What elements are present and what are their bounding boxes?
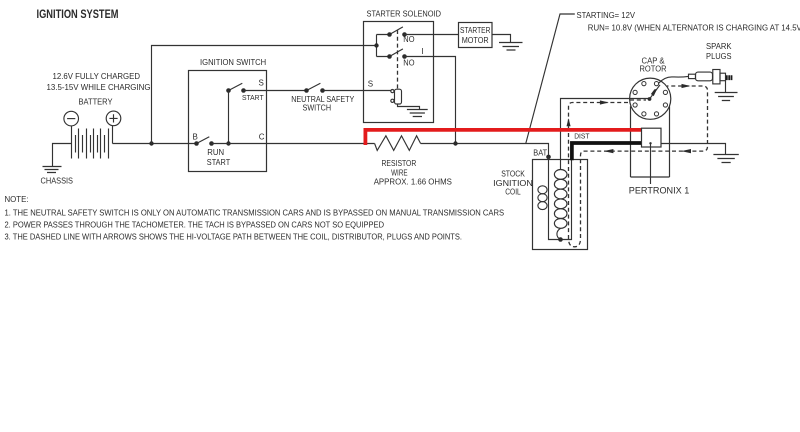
ground solenoid coil [407, 110, 428, 117]
neutral safety switch blade [307, 83, 321, 90]
svg-text:START: START [207, 158, 231, 167]
svg-text:SPARK: SPARK [706, 42, 732, 51]
solenoid coil winding [391, 89, 402, 104]
svg-text:PERTRONIX 1: PERTRONIX 1 [629, 186, 690, 197]
coil primary winding loops [538, 186, 547, 210]
wire battery negative to chassis ground [53, 144, 72, 167]
svg-text:1. THE NEUTRAL SAFETY SWITCH I: 1. THE NEUTRAL SAFETY SWITCH IS ONLY ON … [5, 208, 505, 217]
solenoid upper contact blade [390, 27, 403, 35]
resistor wire zigzag [375, 136, 421, 151]
rotor arm with arrow [650, 85, 661, 99]
label NO upper [403, 35, 414, 44]
label IGNITION SWITCH [200, 58, 266, 67]
label RUN= 10.8V (WHEN ALTERNATOR IS CHARGING AT 14.5V [588, 24, 800, 33]
svg-text:BAT: BAT [533, 148, 547, 157]
distributor body box [631, 106, 670, 177]
label BAT [533, 148, 547, 157]
starter solenoid box [364, 22, 434, 123]
svg-text:RUN= 10.8V (WHEN ALTERNATOR IS: RUN= 10.8V (WHEN ALTERNATOR IS CHARGING … [588, 24, 800, 33]
spark plug P1 [689, 70, 732, 84]
ignition switch B pivot dot [194, 141, 199, 146]
wire coil DIST thick black to pertronix [572, 143, 642, 160]
title IGNITION SYSTEM [37, 9, 119, 21]
svg-text:PLUGS: PLUGS [706, 52, 732, 61]
svg-text:IGNITION SWITCH: IGNITION SWITCH [200, 58, 266, 67]
pin label B [193, 133, 198, 142]
ignition switch upper contact (S) blade [229, 83, 243, 90]
node junction battery/top feed [149, 141, 153, 145]
svg-text:12.6V FULLY CHARGED: 12.6V FULLY CHARGED [53, 72, 141, 81]
label NEUTRAL SAFETY SWITCH [291, 95, 355, 113]
pin label S [259, 79, 264, 88]
wire starter motor to ground [492, 35, 511, 43]
battery BT1 minus terminal [64, 111, 79, 126]
solenoid lower pivot dot [387, 54, 392, 59]
ignition switch upper pivot dot [226, 88, 231, 93]
ignition switch S contact dot [241, 88, 246, 93]
label STARTING= 12V [577, 11, 636, 20]
notes text block [5, 195, 505, 241]
coil primary conductor path [549, 157, 572, 240]
dashed path arrow left 2 (return) [681, 149, 691, 153]
label DIST [574, 134, 590, 141]
chassis ground [43, 167, 62, 173]
svg-text:DIST: DIST [574, 134, 590, 141]
label RUN [207, 148, 224, 157]
node junction I-wire/resistor [453, 141, 457, 145]
dashed hi-voltage path into cap center [630, 99, 646, 101]
svg-text:STARTING= 12V: STARTING= 12V [577, 11, 636, 20]
ground spark plug [715, 93, 738, 101]
wire top feed to starter solenoid bus [152, 46, 377, 144]
solenoid lower contact blade [390, 49, 403, 57]
svg-text:COIL: COIL [505, 188, 521, 197]
wire solenoid coil to ground [398, 104, 420, 110]
svg-text:STOCK: STOCK [501, 170, 525, 179]
wire battery positive to ignition switch B [113, 143, 197, 145]
wire solenoid I terminal to resistor output [405, 57, 456, 144]
svg-text:S: S [259, 79, 264, 88]
label CHASSIS [41, 176, 74, 185]
svg-text:NO: NO [403, 35, 414, 44]
label STARTER MOTOR [460, 26, 491, 45]
label NO lower [403, 59, 414, 68]
dashed path arrow right (to cap) [600, 100, 609, 104]
solenoid lower NO contact dot [402, 54, 407, 59]
dashed hi-voltage path coil to cap [569, 86, 708, 247]
label PERTRONIX 1 [629, 186, 690, 197]
dashed path arrow left 1 (return) [604, 149, 614, 153]
wire neutral safety to solenoid S [323, 90, 391, 92]
svg-text:S: S [368, 80, 373, 89]
dashed path arrow up (coil tower) [567, 118, 571, 126]
wire pertronix to ground [662, 144, 726, 155]
annotation leader line STARTING/RUN [526, 14, 575, 143]
svg-text:MOTOR: MOTOR [462, 36, 489, 45]
pin label S solenoid [368, 80, 373, 89]
coil secondary winding loops [554, 170, 567, 229]
spark plug wire from cap [659, 76, 689, 83]
battery BT1 cells [72, 126, 113, 159]
wire resistor to coil BAT [421, 144, 549, 155]
svg-text:3. THE DASHED LINE WITH ARROWS: 3. THE DASHED LINE WITH ARROWS SHOWS THE… [5, 232, 463, 241]
svg-text:13.5-15V WHILE CHARGING: 13.5-15V WHILE CHARGING [47, 83, 151, 92]
svg-text:WIRE: WIRE [391, 168, 408, 177]
svg-text:BATTERY: BATTERY [79, 98, 114, 107]
svg-text:SWITCH: SWITCH [303, 103, 332, 112]
solenoid contact bus [377, 35, 390, 57]
stock ignition coil box [533, 160, 588, 250]
svg-text:B: B [193, 133, 198, 142]
ignition switch lower blade (RUN) [197, 137, 210, 144]
svg-text:NOTE:: NOTE: [5, 195, 29, 204]
svg-text:APPROX. 1.66 OHMS: APPROX. 1.66 OHMS [374, 178, 452, 187]
dashed path arrow right (to plug) [682, 84, 691, 88]
solenoid plunger dashed link [397, 30, 399, 89]
wire spark plug to ground [725, 81, 727, 93]
label CAP & ROTOR [640, 56, 667, 73]
rotor center dot [648, 97, 652, 101]
node solenoid bus junction [374, 43, 378, 47]
ignition switch box [189, 71, 267, 172]
label START lower [207, 158, 231, 167]
svg-text:ROTOR: ROTOR [640, 65, 667, 74]
neutral safety switch pivot dot [304, 88, 309, 93]
coil secondary bottom connection [557, 228, 561, 239]
svg-text:STARTER: STARTER [460, 26, 491, 35]
svg-text:STARTER SOLENOID: STARTER SOLENOID [367, 9, 442, 18]
node coil common junction dot [558, 237, 563, 242]
svg-text:2. POWER PASSES THROUGH THE TA: 2. POWER PASSES THROUGH THE TACHOMETER. … [5, 220, 385, 229]
ground pertronix [713, 155, 738, 163]
coil HV tower wire to cap center [561, 99, 649, 170]
pertronix leader line [649, 142, 651, 184]
label battery voltage note [47, 72, 151, 107]
wire ignition switch internal vertical [228, 91, 230, 144]
battery BT1 plus terminal [106, 111, 121, 126]
neutral safety switch contact dot [320, 88, 325, 93]
svg-text:C: C [259, 133, 265, 142]
svg-text:IGNITION SYSTEM: IGNITION SYSTEM [37, 9, 119, 21]
svg-text:I: I [421, 47, 423, 56]
svg-text:RESISTOR: RESISTOR [382, 159, 417, 168]
label STARTER SOLENOID [367, 9, 442, 18]
ground starter motor [499, 43, 523, 51]
pin label I [421, 47, 423, 56]
resistor bypass red wire [365, 130, 641, 145]
svg-text:NO: NO [403, 59, 414, 68]
label SPARK PLUGS [706, 42, 732, 61]
svg-text:CHASSIS: CHASSIS [41, 176, 74, 185]
pin label C [259, 133, 265, 142]
distributor cap tower contacts [633, 82, 668, 117]
wire ignition S to neutral safety switch [244, 90, 307, 92]
svg-text:START: START [242, 93, 264, 102]
solenoid upper pivot dot [387, 32, 392, 37]
ignition switch RUN contact dot [209, 141, 214, 146]
pertronix module box [642, 128, 662, 147]
label STOCK IGNITION COIL [493, 170, 533, 197]
distributor cap circle [630, 78, 671, 119]
wire ignition C to resistor [212, 143, 375, 145]
label RESISTOR WIRE APPROX 1.66 OHMS [374, 159, 452, 187]
label START upper [242, 93, 264, 102]
svg-text:IGNITION: IGNITION [493, 179, 533, 188]
svg-text:RUN: RUN [207, 148, 224, 157]
wire solenoid upper NO to starter motor [405, 34, 459, 36]
starter motor M1 box [459, 23, 493, 48]
solenoid upper NO contact dot [402, 32, 407, 37]
node ignition switch C junction [226, 141, 230, 145]
node coil BAT terminal dot [546, 155, 551, 160]
